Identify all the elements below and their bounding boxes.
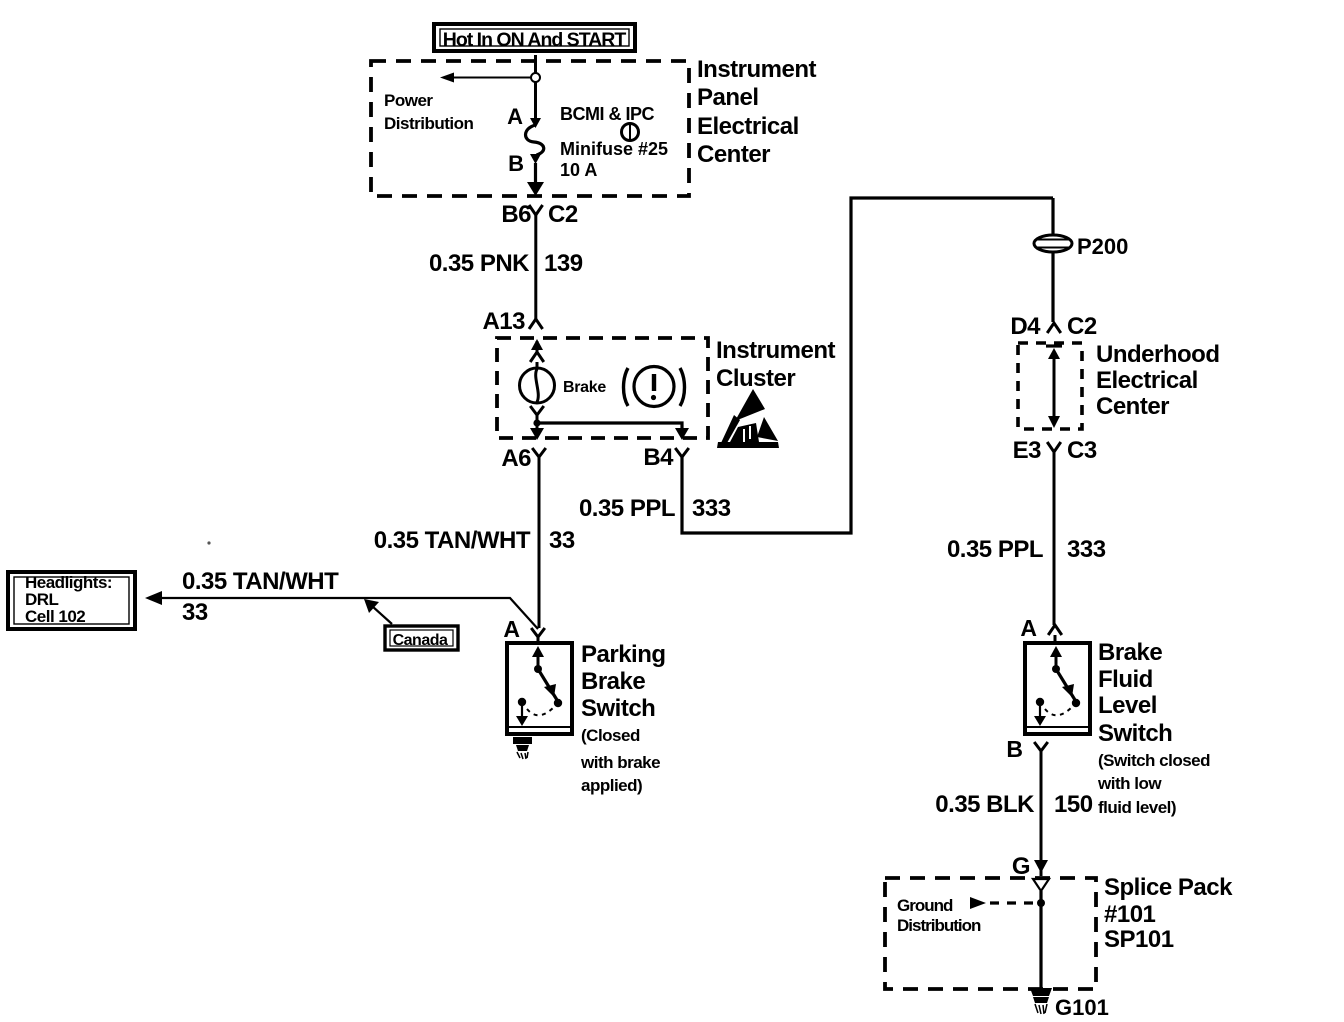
connector A6 bbox=[501, 445, 545, 472]
svg-text:Center: Center bbox=[697, 141, 770, 168]
wire inside splice pack bbox=[1039, 891, 1042, 989]
wire B4 exit arrow bbox=[675, 428, 689, 440]
svg-text:Brake: Brake bbox=[563, 379, 606, 396]
fuse BCM &amp; IPC Minifuse #25 10 A bbox=[526, 118, 544, 164]
headlights DRL cell 102 box bbox=[8, 572, 135, 629]
pin G with arrow bbox=[1012, 853, 1048, 880]
svg-text:SP101: SP101 bbox=[1104, 926, 1174, 953]
svg-text:Canada: Canada bbox=[393, 632, 448, 649]
svg-text:Minifuse #25: Minifuse #25 bbox=[560, 139, 668, 159]
label 0.35 PPL 333 bbox=[579, 495, 731, 522]
svg-text:B: B bbox=[508, 151, 524, 176]
svg-text:Cell 102: Cell 102 bbox=[25, 607, 85, 626]
svg-text:Fluid: Fluid bbox=[1098, 666, 1153, 693]
svg-text:(Switch closed: (Switch closed bbox=[1098, 751, 1210, 770]
label Instrument Cluster bbox=[716, 337, 836, 392]
wire 0.35 PNK 139 bbox=[534, 215, 537, 319]
svg-text:A: A bbox=[503, 616, 520, 642]
svg-text:Distribution: Distribution bbox=[897, 916, 981, 935]
svg-text:Brake: Brake bbox=[1098, 639, 1162, 666]
svg-text:Cluster: Cluster bbox=[716, 365, 795, 392]
label Underhood Electrical Center bbox=[1096, 341, 1219, 420]
svg-text:BCMI & IPC: BCMI & IPC bbox=[560, 104, 655, 124]
ground (parking brake switch case) bbox=[513, 737, 532, 759]
brake indicator bulb bbox=[520, 362, 555, 403]
svg-text:Power: Power bbox=[384, 91, 433, 110]
svg-text:Splice Pack: Splice Pack bbox=[1104, 874, 1233, 901]
brake fluid level switch bbox=[1025, 643, 1090, 734]
svg-text:E3: E3 bbox=[1013, 437, 1042, 464]
svg-text:Instrument: Instrument bbox=[697, 56, 817, 83]
svg-text:C2: C2 bbox=[1067, 313, 1097, 340]
svg-text:10 A: 10 A bbox=[560, 160, 597, 180]
connector A (brake fluid level switch) bbox=[1020, 615, 1061, 642]
node splice junction bbox=[1037, 899, 1045, 907]
label Splice Pack #101 SP101 bbox=[1104, 874, 1233, 953]
svg-text:333: 333 bbox=[1067, 536, 1106, 563]
connector E3 C3 bbox=[1013, 437, 1097, 464]
label Instrument Panel Electrical Center bbox=[697, 56, 817, 168]
svg-text:B6: B6 bbox=[501, 201, 531, 228]
scan speck bbox=[207, 541, 210, 544]
svg-text:C2: C2 bbox=[548, 201, 578, 228]
svg-text:Brake: Brake bbox=[581, 668, 645, 695]
svg-text:A13: A13 bbox=[482, 308, 525, 335]
label 0.35 PPL 333 bbox=[947, 536, 1106, 563]
svg-text:A6: A6 bbox=[501, 445, 531, 472]
label 0.35 PNK 139 bbox=[429, 250, 583, 277]
wire through underhood electrical center bbox=[1046, 346, 1062, 428]
ground distribution arrow bbox=[970, 897, 1037, 909]
connector B bbox=[1006, 736, 1047, 762]
svg-text:0.35 BLK: 0.35 BLK bbox=[935, 791, 1035, 818]
svg-text:fluid level): fluid level) bbox=[1098, 798, 1176, 817]
svg-text:A: A bbox=[507, 104, 523, 129]
svg-text:C3: C3 bbox=[1067, 437, 1097, 464]
node junction bbox=[533, 419, 540, 426]
svg-text:Switch: Switch bbox=[581, 695, 655, 722]
wire 0.35 PPL 333 down to brake fluid level switch bbox=[1053, 452, 1056, 625]
wire 0.35 BLK 150 bbox=[1040, 751, 1043, 876]
svg-text:Switch: Switch bbox=[1098, 720, 1172, 747]
svg-text:33: 33 bbox=[182, 599, 208, 626]
svg-text:0.35 PNK: 0.35 PNK bbox=[429, 250, 530, 277]
splice pack SP101 box bbox=[885, 878, 1096, 989]
connector D4 C2 bbox=[1010, 313, 1097, 340]
svg-text:Center: Center bbox=[1096, 393, 1169, 420]
svg-text:Electrical: Electrical bbox=[697, 113, 799, 140]
connector B4 bbox=[643, 444, 688, 471]
ESD sensitivity symbol bbox=[717, 389, 779, 448]
label 0.35 TAN/WHT 33 bbox=[374, 527, 575, 554]
svg-text:Underhood: Underhood bbox=[1096, 341, 1219, 368]
svg-text:Distribution: Distribution bbox=[384, 114, 473, 133]
svg-text:33: 33 bbox=[549, 527, 575, 554]
wire A6 exit arrow bbox=[530, 423, 544, 440]
wire 0.35 PPL 333 from B4 routing right and up bbox=[682, 198, 1053, 533]
svg-text:G: G bbox=[1012, 853, 1030, 880]
svg-text:Panel: Panel bbox=[697, 84, 759, 111]
wire feed from hot bus into fuse bbox=[534, 55, 537, 124]
wire to headlights DRL bbox=[145, 591, 538, 629]
wire entering cluster with arrow bbox=[530, 339, 544, 362]
svg-text:P200: P200 bbox=[1077, 234, 1128, 259]
svg-text:D4: D4 bbox=[1010, 313, 1041, 340]
label Power Distribution bbox=[384, 91, 473, 133]
splice connector bbox=[1033, 879, 1049, 891]
svg-text:139: 139 bbox=[544, 250, 583, 277]
svg-text:applied): applied) bbox=[581, 776, 642, 795]
svg-text:G101: G101 bbox=[1055, 995, 1109, 1020]
brake warning symbol ((!)) bbox=[624, 367, 685, 407]
svg-text:(Closed: (Closed bbox=[581, 726, 640, 745]
svg-text:B: B bbox=[1006, 736, 1023, 762]
svg-text:150: 150 bbox=[1054, 791, 1093, 818]
label 0.35 TAN/WHT 33 (DRL branch) bbox=[182, 568, 339, 626]
parking brake switch bbox=[507, 643, 572, 734]
Underhood Electrical Center box bbox=[1018, 343, 1082, 429]
svg-text:333: 333 bbox=[692, 495, 731, 522]
svg-text:A: A bbox=[1020, 615, 1037, 641]
connector A (parking brake switch) bbox=[503, 616, 544, 643]
connector inside cluster below bulb bbox=[530, 406, 544, 423]
svg-text:#101: #101 bbox=[1104, 901, 1156, 928]
svg-text:with brake: with brake bbox=[580, 753, 660, 772]
svg-text:0.35 PPL: 0.35 PPL bbox=[947, 536, 1043, 563]
Instrument Cluster box bbox=[497, 338, 708, 438]
svg-text:Instrument: Instrument bbox=[716, 337, 836, 364]
svg-text:Electrical: Electrical bbox=[1096, 367, 1198, 394]
svg-text:B4: B4 bbox=[643, 444, 674, 471]
wire across cluster to B4 bbox=[537, 423, 682, 428]
label Ground Distribution bbox=[897, 896, 981, 935]
label 0.35 BLK 150 bbox=[935, 791, 1092, 818]
svg-text:0.35 TAN/WHT: 0.35 TAN/WHT bbox=[374, 527, 531, 554]
power source tag "Hot In ON And START" bbox=[434, 24, 635, 51]
svg-text:with low: with low bbox=[1097, 774, 1162, 793]
Canada tag bbox=[364, 599, 458, 650]
wire fuse output with arrow bbox=[527, 163, 544, 196]
label Brake Fluid Level Switch bbox=[1097, 639, 1210, 817]
connector B6 C2 bbox=[501, 201, 578, 228]
label Parking Brake Switch bbox=[580, 641, 666, 795]
svg-text:0.35 PPL: 0.35 PPL bbox=[579, 495, 675, 522]
grommet P200 bbox=[1034, 198, 1072, 322]
connector A13 bbox=[482, 308, 542, 335]
svg-text:Parking: Parking bbox=[581, 641, 666, 668]
svg-text:Hot In ON And START: Hot In ON And START bbox=[443, 29, 627, 51]
Instrument Panel Electrical Center box bbox=[371, 61, 689, 196]
ground G101 bbox=[1030, 988, 1052, 1014]
svg-text:Ground: Ground bbox=[897, 896, 953, 915]
power distribution feed arrow bbox=[440, 73, 540, 83]
svg-text:0.35 TAN/WHT: 0.35 TAN/WHT bbox=[182, 568, 339, 595]
wire 0.35 TAN/WHT 33 from A6 down bbox=[538, 457, 541, 628]
svg-text:Level: Level bbox=[1098, 692, 1157, 719]
fuse value label bbox=[560, 104, 668, 180]
